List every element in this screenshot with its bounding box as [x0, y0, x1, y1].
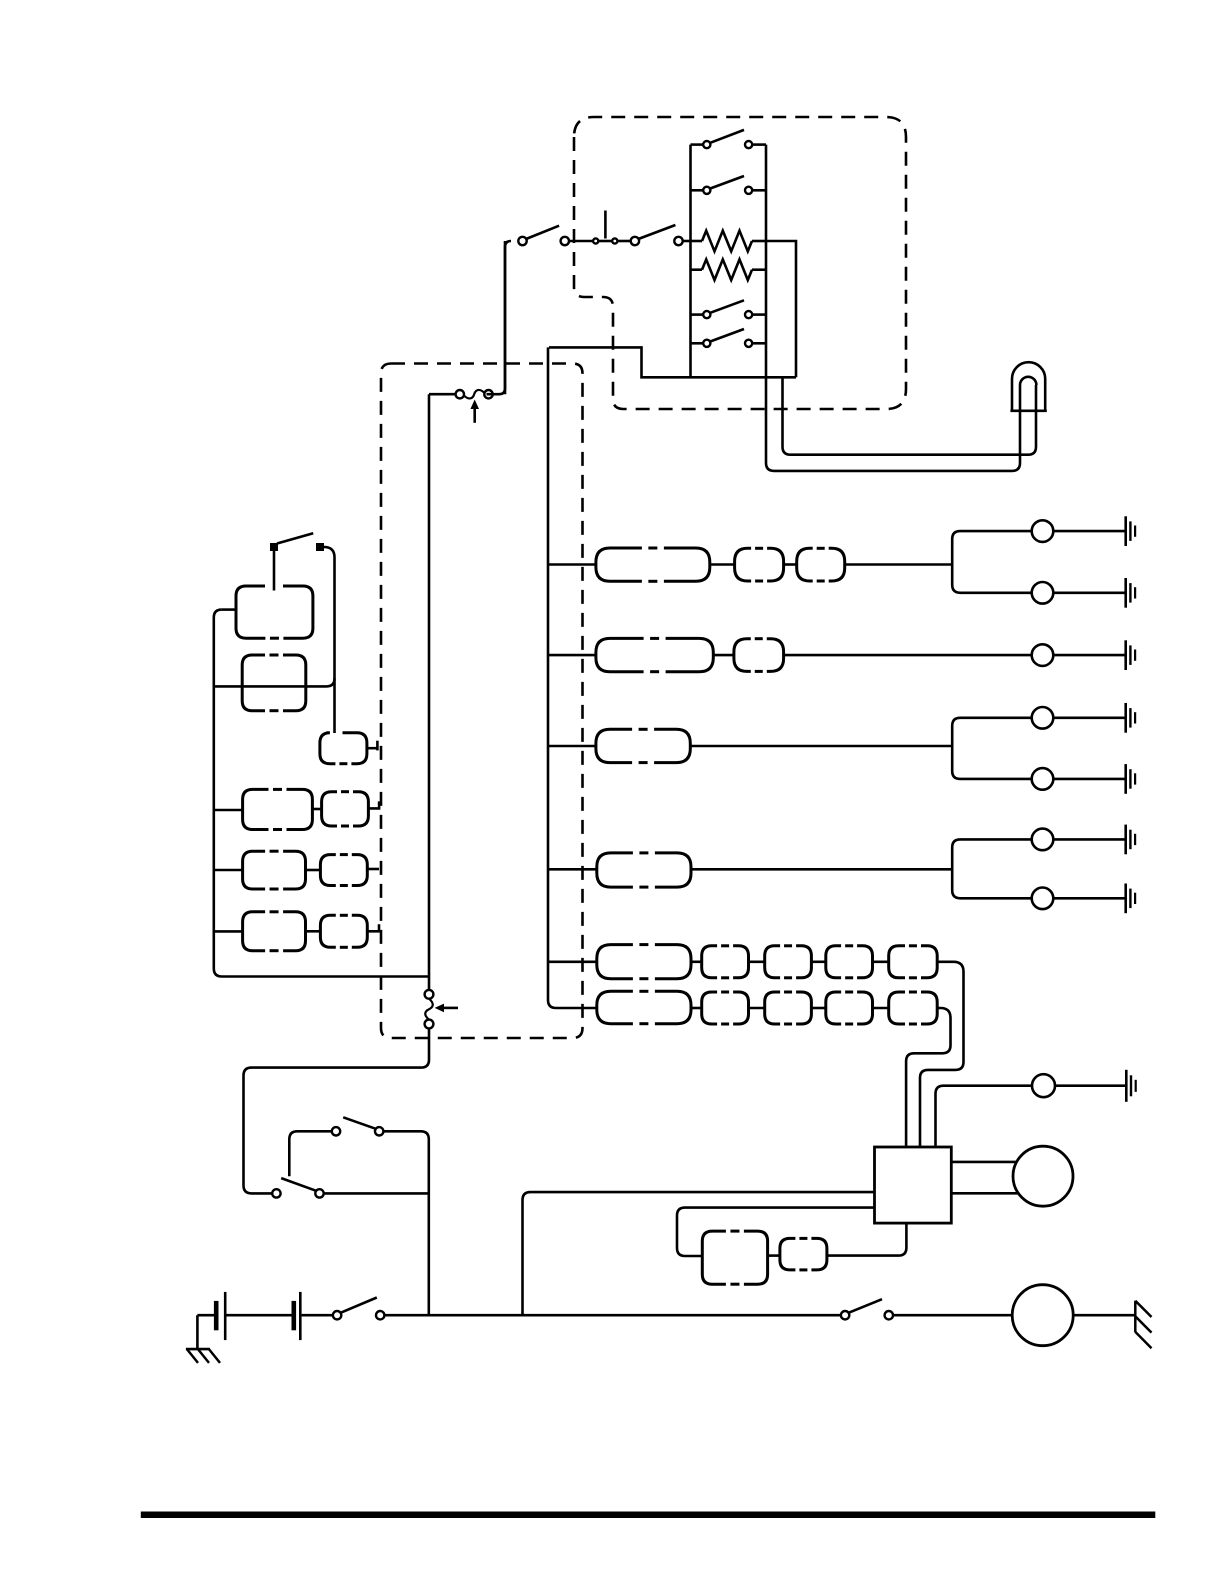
- chassis ground G9: [1134, 1301, 1137, 1333]
- lamp L1: [1032, 520, 1054, 542]
- wire: bus stub to C1: [222, 608, 236, 611]
- protector switch S5 (self-reset): [425, 990, 434, 999]
- wire L4 to ground: [1053, 716, 1125, 719]
- switch contact S3: [691, 313, 704, 316]
- wire: ground to battery: [197, 1314, 214, 1317]
- lamp L5: [1032, 768, 1054, 790]
- connector C17: [597, 853, 633, 887]
- wire: breaker to main feed bus: [428, 394, 431, 990]
- connector C25: [765, 992, 780, 1024]
- motor M1 (blower motor): [1013, 1146, 1073, 1206]
- wire row 4 segments: [548, 868, 597, 871]
- resistor R1 (blower resistor upper): [702, 231, 752, 252]
- relay box K1: [875, 1147, 952, 1223]
- wire row 6 segments: [556, 1007, 597, 1010]
- connector C2: [242, 655, 265, 711]
- lamp L8: [1032, 1074, 1055, 1097]
- blower switch frame rails: [689, 145, 692, 378]
- resistor R2 (blower resistor lower): [702, 259, 752, 280]
- connector C24: [702, 992, 717, 1024]
- connector C19: [702, 946, 717, 978]
- connector C8: [320, 855, 335, 886]
- connector C26: [826, 992, 841, 1024]
- ignition switch contact A: [518, 237, 526, 245]
- motor M2 (condenser fan motor): [1012, 1285, 1073, 1346]
- wire: S8 left terminal down to S7 blade: [289, 1131, 332, 1176]
- wire: S7 to junction: [324, 1192, 429, 1195]
- wire: bus stub through C2 to C4 drop: [214, 678, 335, 686]
- lamp L3: [1032, 644, 1054, 666]
- splitter to lamps L4 L5: [952, 718, 1031, 779]
- left bus wire: [214, 610, 429, 977]
- wire: S10 to motor M2: [893, 1314, 1012, 1317]
- splitter to lamps L1 L2: [952, 531, 1031, 593]
- wire row 2 segments: [548, 654, 596, 657]
- connector C9: [243, 912, 266, 951]
- connector C4: [320, 733, 336, 764]
- arrow marker (reset direction): [473, 406, 476, 423]
- lamp L2: [1032, 582, 1054, 604]
- wire row 1 segments: [548, 563, 596, 566]
- circuit breaker CB1: [429, 393, 456, 396]
- wire: blower box to bulb (inner): [783, 377, 1037, 454]
- connector C6: [322, 792, 337, 826]
- switch S7 (lower): [272, 1189, 280, 1197]
- wire: bus stub to C5: [214, 809, 243, 812]
- lamp L4: [1032, 707, 1054, 729]
- wire: contact A to contact B: [569, 240, 593, 243]
- wire L7 to ground: [1053, 897, 1125, 900]
- switch contact S1 (blower hi): [691, 143, 704, 146]
- main distribution wire (vertical): [548, 347, 556, 1008]
- connector C13: [797, 548, 813, 581]
- wire row 6 drop to relay: [906, 1008, 950, 1147]
- connector C23: [597, 991, 633, 1023]
- switch S9 (main): [333, 1311, 341, 1319]
- ground G5: [1124, 764, 1127, 794]
- footer rule: [141, 1512, 1156, 1519]
- switch S8 (upper): [332, 1127, 340, 1135]
- ground G2: [1124, 578, 1127, 608]
- ignition switch contact B: [631, 237, 639, 245]
- dashed enclosure: switch assembly (left): [381, 364, 583, 1039]
- main battery wire: [384, 1314, 841, 1317]
- wire: C4 output stub with pin: [367, 747, 378, 750]
- wire: C28 to C29 link: [768, 1254, 780, 1257]
- wire: resistor output to right rail extension: [766, 241, 796, 377]
- connector C27: [889, 992, 905, 1024]
- connector C15: [734, 639, 751, 672]
- wire L8 to ground: [1055, 1084, 1126, 1087]
- wire L2 to ground: [1053, 591, 1125, 594]
- switch S10 (fan main): [841, 1311, 849, 1319]
- wire: battery feed up to relay: [523, 1192, 875, 1315]
- wire: relay to motor M1 (lower): [951, 1192, 1018, 1195]
- bulb L9 (illumination lamp): [1012, 362, 1045, 411]
- connector C28: [702, 1231, 726, 1284]
- wire: C10 output stub: [367, 924, 379, 931]
- wire L1 to ground: [1053, 530, 1125, 533]
- ground G8: [1125, 1070, 1128, 1102]
- wire: relay loop through connectors C28 C29: [677, 1208, 875, 1256]
- connector C1: [236, 586, 265, 638]
- wire: C6 output stub: [368, 801, 379, 808]
- battery B1: [214, 1301, 219, 1330]
- connector C7: [243, 851, 266, 889]
- connector C18: [597, 945, 633, 979]
- connector C5: [243, 789, 269, 829]
- connector C16: [596, 729, 632, 762]
- connector C22: [889, 946, 905, 978]
- battery ground: [186, 1315, 210, 1349]
- wire: S5 down and across to dimmer switches: [244, 1028, 430, 1193]
- wire L5 to ground: [1053, 778, 1125, 781]
- wire: C8 output stub: [367, 868, 379, 871]
- wire: C9 to C10 link: [306, 930, 321, 933]
- lamp L6: [1032, 829, 1054, 851]
- connector C21: [826, 946, 841, 978]
- solid enclosure below blower switch: [549, 347, 796, 377]
- arrow marker pointing to S5: [442, 1007, 458, 1010]
- switch contact S2: [691, 189, 704, 192]
- wire: relay to lamp L8: [936, 1086, 1033, 1147]
- switch S6 (courtesy switch): [270, 543, 278, 551]
- terminal node pair with key mark: [593, 238, 598, 243]
- connector C20: [765, 946, 780, 978]
- wire: M2 to chassis ground: [1073, 1314, 1135, 1317]
- connector C12: [735, 548, 752, 581]
- switch contact S4 (blower lo): [691, 342, 704, 345]
- ground G7: [1124, 884, 1127, 914]
- dashed enclosure: heater control assembly: [574, 117, 906, 409]
- lamp L7: [1032, 888, 1054, 910]
- wire row 3 segments: [548, 745, 596, 748]
- wire: bus stub to C9: [214, 930, 243, 933]
- wire: S8 right terminal to battery wire: [383, 1131, 428, 1315]
- wire: relay to motor M1 (upper): [951, 1161, 1017, 1164]
- connector C14: [596, 638, 644, 671]
- wire: S6 right terminal down to connector C4: [324, 547, 335, 733]
- wire: battery to switch S9: [302, 1314, 333, 1317]
- wire row 5 drop to relay: [920, 962, 964, 1147]
- wire row 5 segments: [548, 960, 597, 963]
- ground G6: [1124, 825, 1127, 855]
- wire: blower box to bulb (outer): [766, 377, 1020, 471]
- wire L3 to ground: [1053, 654, 1125, 657]
- wire: feed drop to circuit breaker: [505, 241, 511, 394]
- wire: node pair to contact B: [617, 240, 630, 243]
- splitter to lamps L6 L7: [952, 839, 1031, 898]
- connector C10: [320, 915, 335, 947]
- ground G4: [1124, 703, 1127, 733]
- wire: bus stub to C7: [214, 869, 243, 872]
- ground G1: [1124, 516, 1127, 546]
- ground G3: [1124, 640, 1127, 670]
- wire: S6 left terminal into connector C1: [273, 551, 276, 591]
- wire: C5 to C6 link: [312, 808, 321, 811]
- wire L6 to ground: [1053, 838, 1125, 841]
- connector C11: [596, 548, 642, 581]
- wire: C7 to C8 link: [306, 869, 321, 872]
- connector C29: [780, 1238, 796, 1270]
- wire: contact B to blower switch rail: [683, 240, 691, 243]
